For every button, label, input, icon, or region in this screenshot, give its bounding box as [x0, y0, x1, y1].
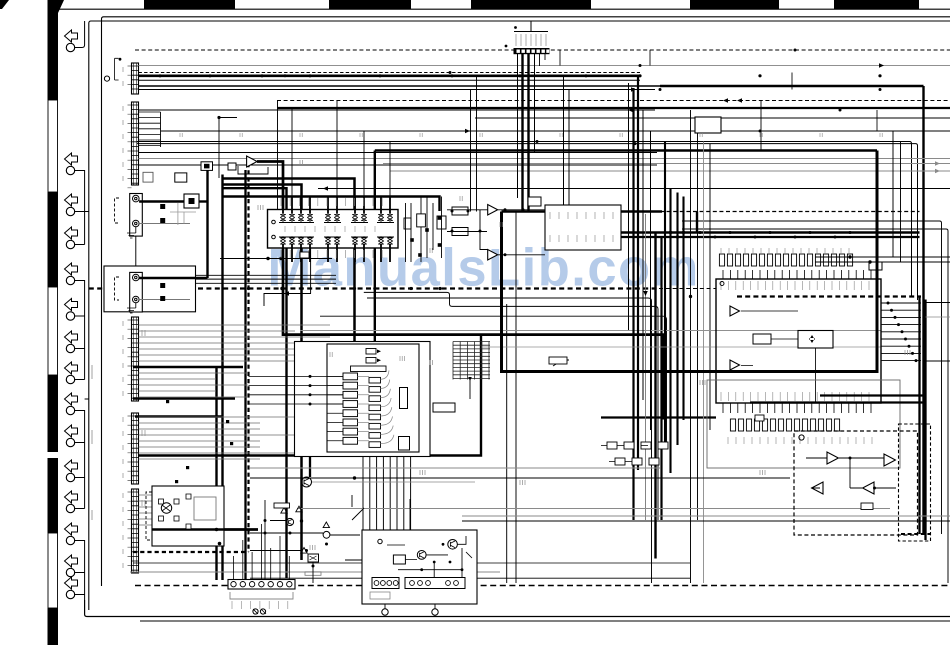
resistor R301 — [452, 228, 468, 236]
gray vertical x645.5 — [645, 214, 647, 520]
P301 pin2 wire to bottom bus — [434, 615, 436, 616]
stub wire right of IC501 row 8 — [881, 352, 921, 354]
resistor R302 — [452, 207, 468, 215]
frame line inner (y=16.8 / x=101.5) — [102, 17, 950, 586]
IC303 inner marks — [550, 212, 613, 219]
thin dashed y288.5 right continuation — [659, 288, 716, 290]
bottom second line — [140, 620, 950, 622]
vertical right x893 — [892, 131, 894, 257]
bus wire pair y143.6 — [137, 144, 918, 300]
vertical bundle x650.5 — [650, 131, 652, 430]
long vertical x703.5 gray — [703, 142, 705, 584]
junction dots right loop — [669, 231, 672, 234]
vertical bus thick pair from CN6 — [527, 54, 529, 212]
thick vertical x683.5 — [682, 197, 684, 421]
P301 inner circle small — [378, 539, 382, 543]
page top border line — [57, 8, 950, 10]
component rect right of resistor row — [869, 262, 882, 270]
gray wire y516 — [462, 515, 950, 517]
thick vertical bundle left — [215, 367, 217, 580]
jack box J102 — [130, 272, 143, 312]
wire y361 to edge — [926, 360, 950, 362]
junction dots on dashed bus y288.5 — [247, 287, 250, 290]
component block right of IC501 — [695, 117, 721, 133]
CN6 bracket and stem — [514, 21, 548, 32]
IC601 top pin labels — [281, 198, 382, 206]
vertical bundle x643 — [642, 110, 644, 400]
thick bus y108 — [277, 107, 950, 109]
transistor Q302 — [286, 518, 293, 525]
P301 hanging pin 1 — [384, 604, 386, 609]
op-amp IC201 — [247, 156, 257, 167]
thick dashed bus y296.5 right — [737, 295, 921, 297]
terminal circle 4 — [66, 240, 74, 248]
jog wire y292.4 to y306.4 — [364, 292, 658, 520]
U401 right rect Q401 — [400, 388, 408, 409]
op-amp U801a — [827, 452, 838, 464]
thick wire J101 to DB1 — [139, 200, 184, 202]
P301 inner wires — [387, 536, 472, 578]
wire J101 pin2 — [139, 223, 190, 225]
P301 inner rect RY301 — [393, 555, 405, 564]
bus wire pair y141.5 — [137, 142, 912, 297]
off-page arrow 1 — [65, 30, 78, 42]
film edge bar left outlined segment 3 — [48, 533, 58, 608]
wire y279.1 — [196, 278, 337, 280]
terminal circle 2 — [66, 166, 74, 174]
gray label box — [370, 592, 390, 599]
vertical bundle x628.5 — [628, 83, 630, 330]
connector CN4 — [132, 413, 139, 484]
wire y563 — [133, 562, 690, 564]
U401 input dots — [309, 375, 312, 378]
labels below IC501 — [728, 437, 872, 444]
K101 dot — [218, 542, 222, 546]
IC501 top pin leads — [723, 270, 871, 279]
stub wire right of IC501 row 1 — [881, 302, 921, 304]
resistor cluster below IC501 left — [607, 442, 668, 465]
wire y578.2 — [250, 577, 690, 579]
P301 wire dots — [433, 561, 436, 564]
bus wire dashed y72.5 — [139, 72, 641, 74]
terminal circle 11 — [66, 473, 74, 481]
transistor Q306 — [323, 531, 330, 538]
box IC303 — [545, 205, 621, 250]
thick trace chain B overlay — [502, 151, 878, 372]
jack box J101 — [130, 194, 143, 237]
wire group bus left margin — [74, 411, 85, 509]
thick vertical x245.5 — [244, 170, 246, 583]
vertical pair x476.5 — [476, 76, 478, 212]
resistor R123 — [300, 252, 309, 258]
thick wire y529.5 left — [152, 528, 258, 530]
terminal circle 1 — [66, 43, 74, 51]
IC601 diode group brackets — [279, 223, 394, 238]
film edge bar left, top wedge segment — [48, 0, 65, 100]
wire y317 to edge — [926, 316, 950, 318]
J101 pin circle 1 — [133, 195, 140, 202]
bus wire y86 — [139, 85, 661, 87]
warning triangle 1 — [281, 508, 287, 514]
wire corner y316.2 — [320, 316, 667, 445]
warning triangle 4 — [301, 548, 307, 554]
thick link CN6 bus — [502, 210, 663, 213]
junction dots staircase — [280, 287, 283, 290]
dashed box U801 — [794, 431, 918, 535]
registration mark top-left corner — [0, 0, 9, 9]
IC601 diode array top row — [280, 213, 392, 223]
wire corner y298 — [367, 298, 652, 583]
off-page arrow 10 — [65, 425, 78, 437]
resistor R163 — [228, 163, 236, 170]
CN301 gray bracket — [230, 592, 293, 599]
gray wire y171 — [390, 170, 950, 172]
capacitor C201 — [347, 345, 349, 347]
off-page arrow 12 — [65, 491, 78, 503]
heavy dashed bus y288.5 — [89, 287, 659, 289]
bus wire thick y150.5 right half — [375, 149, 877, 151]
junction squares cluster — [438, 216, 442, 220]
wire stub — [74, 211, 85, 213]
bus wire gray y65.5 — [139, 65, 950, 67]
gray wire y330.5 — [300, 330, 881, 332]
gray wire y482 from Q301 — [312, 481, 475, 483]
wire stub — [74, 348, 85, 350]
fan vertical — [160, 112, 162, 147]
vertical x277.5 from bus to IC601 — [277, 101, 279, 210]
J101 pin circle 2 — [133, 220, 140, 227]
wire y521 — [462, 520, 950, 522]
gray box near K101 — [194, 497, 216, 520]
relay K101 circle — [161, 503, 171, 513]
film edge bar left black segment 5 — [48, 608, 59, 645]
X301 lead — [312, 562, 314, 583]
stub wire right of IC501 row 5 — [881, 331, 921, 333]
resistor row above IC501 — [719, 254, 852, 266]
film edge bar left outlined segment 1 — [48, 100, 58, 192]
connector CN302 — [372, 578, 399, 589]
connector CN5 — [132, 489, 139, 573]
IC501 pin1 circle — [720, 282, 724, 286]
texture labels near CN3 — [142, 330, 145, 336]
double wire y257 — [815, 256, 950, 258]
op-amp U801b — [884, 454, 895, 466]
texture labels center — [300, 160, 303, 165]
bus wire dashed y50 — [135, 49, 950, 51]
bracket x114 — [115, 58, 119, 80]
U801 wires — [806, 458, 896, 488]
film edge bar left black segment 2 — [48, 192, 59, 287]
bus jog marks — [560, 50, 877, 131]
thick vertical x925.5 right edge — [924, 300, 926, 541]
stub wire right of IC501 row 7 — [881, 345, 921, 347]
thick trace chain B — [502, 151, 878, 372]
thick vertical x923.5 from y86 — [922, 86, 924, 534]
off-page arrow 7 — [65, 331, 78, 343]
terminal circle 15 — [66, 590, 74, 598]
labels alongside CN strips — [122, 67, 124, 72]
resistor R161 — [175, 173, 187, 182]
wire y258.5 — [220, 258, 332, 260]
off-page arrow 3 — [65, 194, 78, 206]
resistor R311 — [274, 503, 290, 508]
resistor R162 — [143, 172, 153, 182]
op-amp IC302b — [488, 250, 498, 261]
off-page arrow 11 — [65, 460, 78, 472]
warning triangle 3 — [323, 522, 329, 528]
wire y478 — [250, 477, 790, 479]
short vertical x761 — [760, 101, 762, 151]
cluster verticals IC301 area — [406, 197, 442, 263]
wire group bus left margin — [74, 541, 85, 595]
gray wire y572 — [130, 571, 500, 573]
grid block X401 — [453, 342, 490, 380]
box K101 — [152, 486, 224, 546]
wire stub — [74, 442, 85, 444]
wire y283.3 — [196, 282, 336, 284]
wire stub — [74, 572, 85, 574]
J102 pin circle 2 — [133, 296, 140, 303]
component dark block DB1 — [184, 194, 199, 208]
connector CN2 — [132, 102, 139, 185]
IC501 bottom pin labels — [721, 392, 869, 401]
bracket left of J102 — [115, 277, 120, 300]
U401 fan wires — [358, 370, 394, 443]
small box near U401 — [549, 357, 567, 364]
bus wire y89.5 — [139, 89, 656, 91]
terminal circle 14 — [66, 568, 74, 576]
IC501 op-amp 1 — [730, 306, 740, 316]
IC501 top pin labels — [721, 281, 869, 290]
ground sym J102 — [127, 303, 136, 313]
bottom dashed bus line — [135, 585, 950, 587]
gray wires in J101 area — [170, 203, 196, 225]
harness bundle below U401 — [363, 457, 411, 584]
wires middle cluster — [447, 210, 545, 255]
dashed bracket K101 — [146, 492, 152, 540]
bus wire y131 with arrows — [161, 130, 950, 132]
thick trace staircase 3 — [224, 185, 302, 561]
grid block pin lead — [469, 380, 471, 400]
texture dots on buses — [284, 74, 287, 77]
junction squares J101 — [160, 204, 165, 209]
thick stub y395.5 — [820, 394, 925, 396]
thick bus y232.5 right — [621, 231, 920, 233]
terminal circle 5 — [66, 276, 74, 284]
U801 resistor — [861, 503, 873, 510]
thick bus vertical x661.5 — [660, 237, 662, 520]
arrow down x645.5 — [643, 291, 648, 296]
outer box U401 area — [295, 342, 431, 457]
thick vertical x207.5 — [206, 170, 208, 278]
thick vertical drop x374.8 — [374, 151, 376, 342]
component dark block — [201, 162, 213, 171]
fuse F301 — [253, 609, 258, 614]
IC601 pin risers — [292, 101, 390, 197]
connector CN6 top — [514, 48, 550, 54]
stub wire right of IC501 row 4 — [881, 324, 921, 326]
wire from group to frame — [85, 211, 89, 213]
junction squares left area — [175, 480, 178, 483]
vertical bundle thick x665 — [664, 142, 666, 446]
stub wire right of IC501 row 3 — [881, 316, 921, 318]
vertical J101 to J102 — [135, 236, 137, 272]
box B around J102 — [104, 266, 196, 312]
stub wire right of IC501 row 9 — [881, 360, 921, 362]
vertical x569 — [568, 90, 570, 212]
transistor Q301 — [302, 477, 312, 487]
J102 pin circle 1 — [133, 274, 140, 281]
IC601 bottom pin leads thick — [283, 245, 390, 263]
warning triangle 2 — [296, 506, 302, 512]
op-amp U801c — [812, 482, 823, 494]
harness lines from CN5 — [139, 495, 201, 525]
bus wire y110 — [139, 109, 656, 111]
harness lines from CN4 — [139, 417, 311, 459]
wire y229 corner — [682, 229, 948, 583]
cluster junction dots — [264, 532, 267, 535]
gray wire y347 through IC501 — [481, 346, 881, 348]
texture bottom center labels — [310, 545, 315, 550]
IC501 inner box 2 — [798, 331, 833, 349]
IC601 top pin leads thick — [283, 196, 390, 214]
film edge bar left outlined segment 2 — [48, 287, 58, 375]
thick wire DB1 right — [199, 200, 208, 202]
box below IC501 — [707, 380, 900, 468]
wire terminal 1 to frame — [74, 21, 85, 48]
harness lines from CN3 — [139, 325, 331, 361]
pin stubs above IC303 — [549, 212, 573, 251]
IC501 op-amp 2 — [730, 360, 740, 370]
cluster wires bottom middle — [250, 495, 424, 583]
IC501 bottom pin leads — [723, 403, 871, 413]
relay box X301 — [308, 554, 319, 562]
K101 extra contacts — [186, 494, 191, 529]
gray wire y508.5 — [297, 508, 890, 510]
harness lines from CN3 lower — [139, 373, 249, 397]
terminal circle 10 — [66, 438, 74, 446]
thick bus y237 — [621, 236, 920, 238]
vertical x516 — [515, 212, 517, 584]
wire from group to frame — [85, 398, 89, 400]
CN6 labels — [516, 34, 546, 46]
wire stub — [74, 477, 85, 479]
wire group bus left margin — [74, 281, 85, 380]
U401 resistor ladder — [343, 373, 381, 447]
K101 contacts — [159, 499, 180, 521]
heavy dashed corner y552 — [133, 551, 249, 553]
bus wire y80 — [139, 79, 641, 81]
long vertical x710 — [709, 144, 711, 430]
heavy dashed vertical x248.5 — [247, 163, 249, 552]
thick trace staircase 4 — [224, 188, 287, 578]
terminal circle 7 — [66, 344, 74, 352]
IC501 inner box 1 — [753, 334, 771, 344]
gray wire y468 — [250, 467, 660, 469]
thick wire y417.5 to IC501 — [601, 416, 716, 418]
U401 left feed wires — [327, 376, 343, 440]
wire y158.5 from CN2 — [139, 158, 950, 160]
CN6 short leads — [540, 54, 546, 66]
U401 right rect Q402 — [399, 437, 410, 451]
stub wire right of IC501 row 6 — [881, 338, 921, 340]
thick stub y402.5 — [750, 401, 925, 403]
pin circle on wire x107 — [104, 76, 109, 81]
thick wire y398.5 left — [133, 397, 235, 399]
wires into U401 — [249, 376, 344, 404]
off-page arrow 8 — [65, 362, 78, 374]
arrow on gray bus — [879, 63, 884, 68]
junctions middle cluster — [451, 210, 454, 213]
K101 inner marks — [162, 505, 170, 511]
thick vertical x670.5 — [669, 189, 671, 474]
gray bar under X301 — [305, 572, 321, 576]
fan wires from CN2 — [139, 112, 161, 146]
vertical right x900.5 — [900, 142, 902, 263]
wire y275.3 — [196, 274, 336, 276]
thick wire y416.5 left — [135, 415, 222, 417]
inner box U401 — [327, 344, 419, 452]
off-page arrow 9 — [65, 393, 78, 405]
connector CN3 — [132, 317, 139, 401]
dashed bus y100.5 — [277, 100, 950, 102]
U401 top cap C402 — [366, 358, 376, 364]
thick wire y529.5 through K101 — [152, 528, 258, 530]
terminal circle 3 — [66, 207, 74, 215]
thick bus vertical x655.5 — [654, 233, 656, 559]
dashed box U802 — [899, 424, 931, 541]
thick trace to Q301 — [138, 336, 481, 456]
wire last terminal to bottom corner — [84, 595, 86, 601]
IC501 box — [716, 279, 881, 403]
wire J102 pin2 — [139, 299, 190, 301]
connector CN303 — [405, 578, 465, 589]
bus wire y86 thick right — [660, 85, 924, 88]
dashed bus y211.5 right — [660, 211, 920, 213]
film edge bar left black segment 3 — [48, 375, 59, 452]
IC601 inner labels — [285, 226, 375, 232]
op-amp U801d — [863, 482, 874, 494]
resistor R303 — [528, 197, 541, 206]
terminal circle 12 — [66, 504, 74, 512]
thick wire J102 right — [139, 277, 207, 279]
dot x120 — [119, 58, 122, 61]
CN301 labels — [232, 601, 288, 609]
terminal circle 6 — [66, 312, 74, 320]
box P301 — [362, 530, 477, 604]
terminal circle 9 — [66, 406, 74, 414]
off-page arrow 15 — [65, 577, 78, 589]
thick link x697 — [696, 212, 698, 233]
frame-side rotated labels — [91, 365, 93, 379]
wire group bus left margin — [74, 171, 85, 245]
IC601 diode array bottom row — [280, 236, 392, 246]
stub wire right of IC501 row 2 — [881, 309, 921, 311]
stub net x219 — [219, 118, 237, 179]
resistor R421 — [433, 403, 455, 412]
registration bar top 1 — [144, 0, 235, 9]
IC601 left pins — [272, 220, 276, 224]
labels above IC501 — [721, 248, 849, 255]
thick trace staircase 2 — [224, 179, 355, 343]
resistor R304 — [404, 218, 411, 229]
U401 top bar R410 — [351, 366, 387, 372]
vertical x506.7 — [506, 304, 508, 583]
junction squares J102 — [160, 283, 165, 288]
resistor row below IC501 A — [730, 419, 839, 431]
vertical bundle thick x633.5 — [632, 88, 634, 520]
texture labels row under top buses — [180, 133, 182, 137]
